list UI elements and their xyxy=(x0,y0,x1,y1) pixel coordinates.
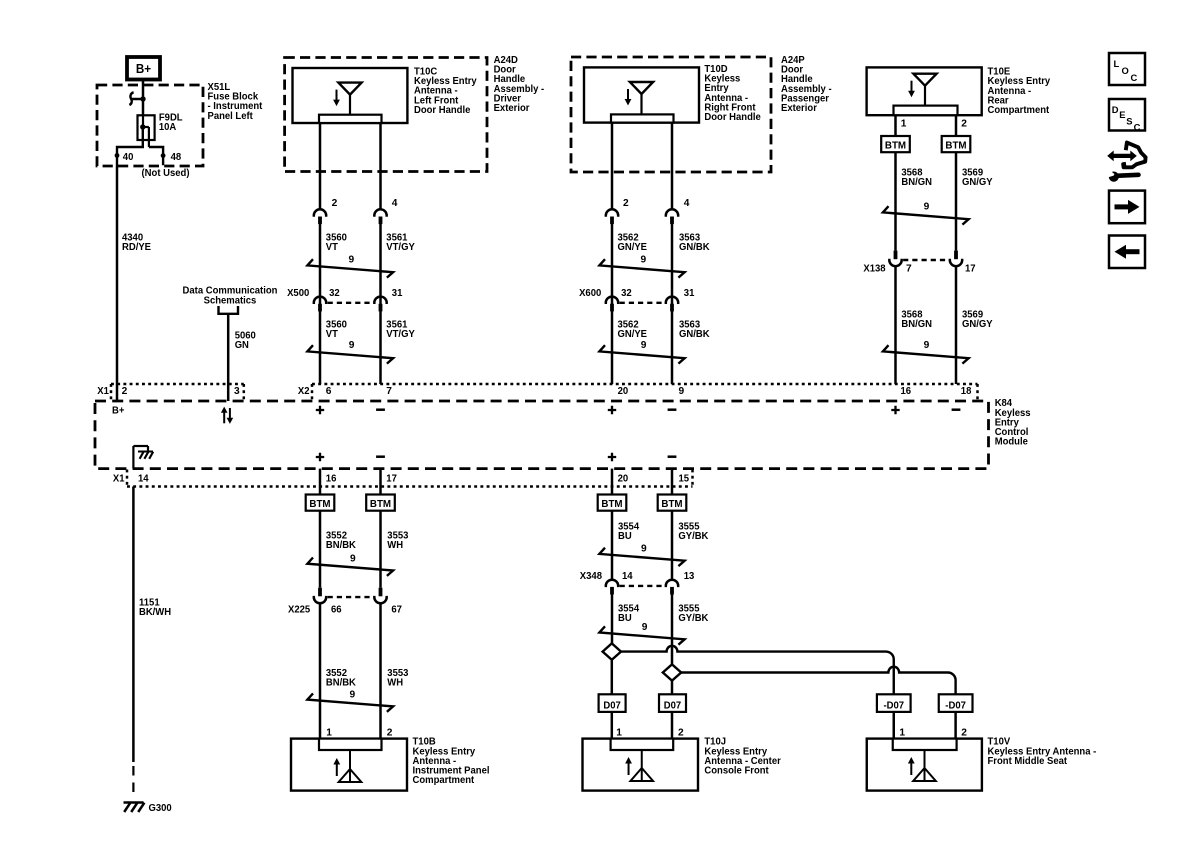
ground G300 xyxy=(124,803,145,813)
svg-text:WH: WH xyxy=(387,540,403,551)
in-line connector at T10D pins 2/4 xyxy=(605,209,620,215)
svg-text:Exterior: Exterior xyxy=(781,103,817,114)
BTM terminal (3555) xyxy=(658,495,687,511)
BTM terminal at T10E pin 1 xyxy=(881,136,910,152)
svg-text:6: 6 xyxy=(326,386,332,397)
svg-text:BU: BU xyxy=(618,531,632,542)
splice diamond on circuit 3554 xyxy=(603,643,621,659)
svg-text:VT/GY: VT/GY xyxy=(386,242,415,253)
door handle assembly A24D dashed outline xyxy=(285,58,487,172)
svg-text:9: 9 xyxy=(350,689,356,700)
svg-text:17: 17 xyxy=(965,264,976,275)
svg-text:X1: X1 xyxy=(97,386,109,397)
svg-text:GN/GY: GN/GY xyxy=(962,177,993,188)
svg-text:B+: B+ xyxy=(112,405,124,416)
connector D07 (pin 1) xyxy=(599,694,626,712)
antenna T10J symbol xyxy=(641,750,643,781)
wires -D07 to T10V xyxy=(893,712,896,739)
svg-text:2: 2 xyxy=(961,119,967,130)
svg-text:O: O xyxy=(1122,65,1129,76)
wire K84 X1-15 to BTM xyxy=(671,469,674,495)
svg-text:16: 16 xyxy=(901,386,912,397)
svg-text:Module: Module xyxy=(995,437,1029,448)
svg-text:66: 66 xyxy=(331,605,342,616)
svg-text:G300: G300 xyxy=(149,803,173,814)
svg-text:67: 67 xyxy=(391,605,402,616)
svg-text:GY/BK: GY/BK xyxy=(678,613,709,624)
BTM terminal (3552) xyxy=(306,495,335,511)
svg-text:WH: WH xyxy=(387,677,403,688)
svg-text:B+: B+ xyxy=(136,62,151,76)
svg-text:32: 32 xyxy=(621,288,632,299)
wire K84 X1-20 to BTM xyxy=(611,469,614,495)
antenna T10V symbol xyxy=(924,750,926,781)
polarity marks above bottom row xyxy=(316,453,324,461)
wire from X348-13 down to splice xyxy=(671,594,674,664)
svg-text:E: E xyxy=(1119,109,1125,120)
svg-text:VT: VT xyxy=(326,329,339,340)
wires D07 to T10J xyxy=(611,712,614,739)
svg-text:L: L xyxy=(1114,58,1120,69)
svg-text:X600: X600 xyxy=(579,288,602,299)
svg-text:X138: X138 xyxy=(863,264,886,275)
svg-text:GN/BK: GN/BK xyxy=(679,242,710,253)
svg-text:40: 40 xyxy=(123,152,134,163)
svg-text:14: 14 xyxy=(138,474,149,485)
svg-text:C: C xyxy=(1131,72,1138,83)
svg-text:3: 3 xyxy=(234,386,240,397)
antenna T10V box xyxy=(867,739,982,791)
svg-text:2: 2 xyxy=(387,727,393,738)
connector -D07 (T10V pin 2) xyxy=(939,694,973,712)
branch wire from splice to T10V -D07 (with hop over 3555) xyxy=(621,646,894,695)
icon LOC button xyxy=(1109,53,1145,85)
splice diamond on circuit 3555 xyxy=(663,664,681,680)
svg-text:Door Handle: Door Handle xyxy=(414,105,471,116)
BTM terminal (3553) xyxy=(366,495,395,511)
svg-text:BTM: BTM xyxy=(945,139,966,151)
svg-text:31: 31 xyxy=(684,288,695,299)
svg-text:20: 20 xyxy=(618,386,629,397)
svg-text:4: 4 xyxy=(684,198,690,209)
antenna T10E box xyxy=(867,67,982,115)
BTM terminal (3554) xyxy=(598,495,627,511)
wire T10D pin 4 xyxy=(671,123,674,209)
svg-text:1: 1 xyxy=(899,727,905,738)
svg-text:X348: X348 xyxy=(580,571,603,582)
wire 5060 GN to K84 X1 pin 3 xyxy=(227,314,230,401)
svg-text:9: 9 xyxy=(350,553,356,564)
icon harness repair (arrow, part outline, wrench) xyxy=(1123,143,1145,168)
wire T10C pin 4 xyxy=(379,123,382,209)
fuse F9DL 10A xyxy=(138,115,155,140)
antenna T10J box xyxy=(583,739,699,791)
svg-text:Schematics: Schematics xyxy=(204,295,257,306)
antenna T10B box xyxy=(291,739,407,791)
svg-text:D07: D07 xyxy=(664,700,682,711)
svg-text:RD/YE: RD/YE xyxy=(122,242,151,253)
svg-text:13: 13 xyxy=(684,571,695,582)
svg-text:BN/BK: BN/BK xyxy=(326,540,357,551)
svg-text:Front Middle Seat: Front Middle Seat xyxy=(988,756,1068,767)
icon forward arrow button xyxy=(1109,191,1145,224)
connector X225 (pins 66,67) xyxy=(318,588,322,597)
svg-text:BN/GN: BN/GN xyxy=(901,177,932,188)
svg-text:48: 48 xyxy=(171,152,182,163)
svg-text:2: 2 xyxy=(122,386,128,397)
wire splice to D07 pin 2 xyxy=(671,681,674,695)
svg-text:9: 9 xyxy=(679,386,685,397)
icon DESC button xyxy=(1109,99,1145,131)
fuse block X51L dashed outline xyxy=(97,85,203,166)
svg-text:Exterior: Exterior xyxy=(494,103,530,114)
svg-text:GN/BK: GN/BK xyxy=(679,329,710,340)
wire T10E pin 1 xyxy=(894,115,897,136)
svg-text:9: 9 xyxy=(641,340,647,351)
svg-text:GY/BK: GY/BK xyxy=(678,531,709,542)
svg-text:Panel Left: Panel Left xyxy=(208,111,254,122)
svg-text:9: 9 xyxy=(349,340,355,351)
wire splice to D07 pin 1 xyxy=(611,660,614,695)
svg-text:BTM: BTM xyxy=(661,498,682,510)
svg-text:2: 2 xyxy=(961,727,967,738)
svg-text:10A: 10A xyxy=(159,122,177,133)
internal chassis ground of K84 at pin X1-14 xyxy=(132,446,134,469)
svg-text:9: 9 xyxy=(641,254,647,265)
svg-text:-D07: -D07 xyxy=(945,700,966,711)
svg-text:BTM: BTM xyxy=(309,498,330,510)
svg-text:D: D xyxy=(1112,104,1119,115)
svg-text:C: C xyxy=(1134,122,1141,133)
antenna T10B symbol xyxy=(349,750,351,782)
svg-text:Compartment: Compartment xyxy=(413,775,475,786)
svg-text:X1: X1 xyxy=(113,474,125,485)
wire K84 X1-17 to BTM xyxy=(379,469,382,495)
svg-text:2: 2 xyxy=(623,198,629,209)
svg-text:7: 7 xyxy=(386,386,392,397)
connector X138 (pins 7,17) xyxy=(894,251,898,260)
svg-text:X2: X2 xyxy=(298,386,310,397)
svg-text:GN/YE: GN/YE xyxy=(618,329,648,340)
svg-text:GN: GN xyxy=(235,340,249,351)
svg-text:(Not Used): (Not Used) xyxy=(142,168,190,179)
svg-text:D07: D07 xyxy=(603,700,621,711)
svg-text:9: 9 xyxy=(641,543,647,554)
door handle assembly A24P dashed outline xyxy=(571,57,771,172)
svg-text:2: 2 xyxy=(332,198,338,209)
wire T10E pin 2 xyxy=(955,115,958,136)
wire K84 X1-16 to BTM xyxy=(319,469,322,495)
svg-text:14: 14 xyxy=(622,571,633,582)
module K84 dashed outline xyxy=(95,401,989,469)
K84 connector X2 top row (pins 6,7,20,9,16,18) xyxy=(312,383,978,386)
svg-text:9: 9 xyxy=(349,254,355,265)
svg-text:18: 18 xyxy=(961,386,972,397)
svg-text:-D07: -D07 xyxy=(883,700,904,711)
power feed B+ terminal xyxy=(127,57,160,80)
wire T10C pin 2 xyxy=(319,123,322,209)
K84 connector X1 bottom row (pins 14,16,17,20,15) xyxy=(127,485,693,488)
svg-text:7: 7 xyxy=(906,264,912,275)
branch wire from splice to T10V -D07 (with hop over branch 1) xyxy=(681,667,956,695)
svg-text:17: 17 xyxy=(386,474,397,485)
antenna T10D box xyxy=(584,67,699,122)
fuse clip contact xyxy=(129,92,143,105)
in-line connector at T10C pins 2/4 xyxy=(313,209,328,215)
svg-text:1: 1 xyxy=(616,727,622,738)
fuse output wire to terminal 40 xyxy=(117,127,143,166)
fuse output stub terminal 48 (not used) xyxy=(149,147,163,165)
svg-text:X225: X225 xyxy=(288,605,311,616)
svg-text:VT: VT xyxy=(326,242,339,253)
svg-text:9: 9 xyxy=(642,622,648,633)
wire 4340 RD/YE from fuse 40 to K84 X1 pin 2 xyxy=(116,166,119,401)
antenna T10C symbol xyxy=(338,83,361,95)
svg-text:BTM: BTM xyxy=(370,498,391,510)
bidirectional data arrows at K84 pin X1-3 xyxy=(223,411,225,423)
svg-text:Console Front: Console Front xyxy=(704,766,769,777)
icon back arrow button xyxy=(1109,236,1145,269)
svg-text:2: 2 xyxy=(678,727,684,738)
wire T10D pin 2 xyxy=(611,123,614,209)
svg-text:9: 9 xyxy=(924,201,930,212)
wire 1151 BK/WH to ground G300 xyxy=(132,487,135,763)
svg-text:Door Handle: Door Handle xyxy=(704,112,761,123)
svg-text:GN/GY: GN/GY xyxy=(962,319,993,330)
connector -D07 (T10V pin 1) xyxy=(877,694,911,712)
svg-text:15: 15 xyxy=(679,474,690,485)
BTM terminal at T10E pin 2 xyxy=(942,136,971,152)
svg-text:1: 1 xyxy=(901,119,907,130)
svg-text:S: S xyxy=(1126,116,1132,127)
antenna T10E symbol xyxy=(913,74,936,86)
svg-text:20: 20 xyxy=(618,474,629,485)
svg-text:BN/GN: BN/GN xyxy=(901,319,932,330)
svg-text:BK/WH: BK/WH xyxy=(139,607,171,618)
svg-text:32: 32 xyxy=(329,288,340,299)
connector D07 (pin 2) xyxy=(659,694,686,712)
svg-text:X500: X500 xyxy=(287,288,310,299)
antenna T10C box xyxy=(293,68,408,123)
antenna T10D symbol xyxy=(630,82,653,94)
svg-text:9: 9 xyxy=(924,340,930,351)
svg-text:GN/YE: GN/YE xyxy=(618,242,648,253)
K84 connector X1 top row (pins 2,3) xyxy=(111,383,244,386)
svg-text:1: 1 xyxy=(326,727,332,738)
svg-text:BU: BU xyxy=(618,613,632,624)
svg-text:BTM: BTM xyxy=(601,498,622,510)
svg-text:16: 16 xyxy=(326,474,337,485)
polarity marks under X2 row xyxy=(316,406,324,414)
svg-text:VT/GY: VT/GY xyxy=(386,329,415,340)
wire from B+ into fuse block xyxy=(142,80,145,116)
svg-text:Compartment: Compartment xyxy=(988,105,1050,116)
svg-text:4: 4 xyxy=(392,198,398,209)
svg-text:BTM: BTM xyxy=(885,139,906,151)
svg-text:BN/BK: BN/BK xyxy=(326,677,357,688)
svg-text:31: 31 xyxy=(392,288,403,299)
